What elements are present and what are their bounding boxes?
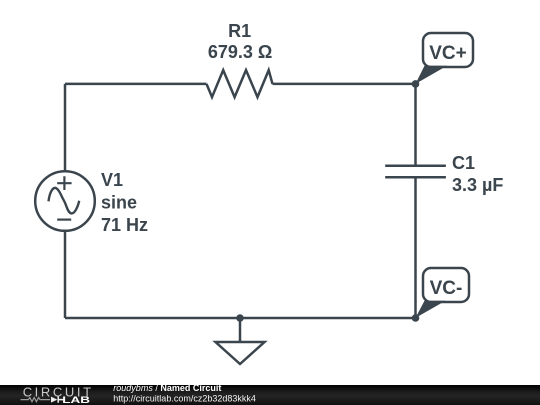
svg-text:roudybms / Named Circuit: roudybms / Named Circuit <box>113 385 221 393</box>
svg-text:VC+: VC+ <box>429 43 467 64</box>
flag VC+ box <box>423 33 473 67</box>
logo diode <box>51 397 57 403</box>
wire right vertical upper <box>414 84 417 166</box>
ground stub wire <box>239 318 242 342</box>
capacitor C1 top plate <box>385 164 446 167</box>
V1 minus sign <box>57 219 71 221</box>
V1 plus sign <box>57 176 71 190</box>
svg-text:R1: R1 <box>228 21 251 41</box>
svg-text:VC-: VC- <box>430 278 463 299</box>
capacitor C1 bottom plate <box>385 176 446 179</box>
wire top-right horizontal <box>273 83 416 86</box>
svg-text:sine: sine <box>101 193 137 213</box>
voltage source V1 circle <box>35 171 95 231</box>
node dot ground <box>236 314 244 322</box>
node dot VC- <box>412 314 420 322</box>
wire right vertical lower <box>414 177 417 318</box>
wire bottom horizontal <box>65 317 416 320</box>
V1 sine glyph <box>49 188 80 213</box>
wire left vertical upper <box>64 84 67 171</box>
ground triangle <box>216 342 265 364</box>
svg-text:http://circuitlab.com/cz2b32d8: http://circuitlab.com/cz2b32d83kkk4 <box>113 394 256 404</box>
svg-text:LAB: LAB <box>62 395 90 405</box>
node dot VC+ <box>412 80 420 88</box>
wire top-left horizontal <box>65 83 207 86</box>
logo resistor zigzag wire <box>21 398 51 402</box>
svg-text:3.3 µF: 3.3 µF <box>452 175 503 195</box>
resistor R1 <box>207 70 273 97</box>
wire left vertical lower <box>64 231 67 318</box>
svg-text:71 Hz: 71 Hz <box>101 215 148 235</box>
flag VC- tail <box>416 301 446 318</box>
footer bar <box>0 385 540 405</box>
svg-text:C1: C1 <box>452 153 475 173</box>
svg-text:679.3 Ω: 679.3 Ω <box>208 42 272 62</box>
flag VC- box <box>423 268 469 302</box>
svg-text:V1: V1 <box>101 170 123 190</box>
flag VC+ tail <box>416 66 448 84</box>
